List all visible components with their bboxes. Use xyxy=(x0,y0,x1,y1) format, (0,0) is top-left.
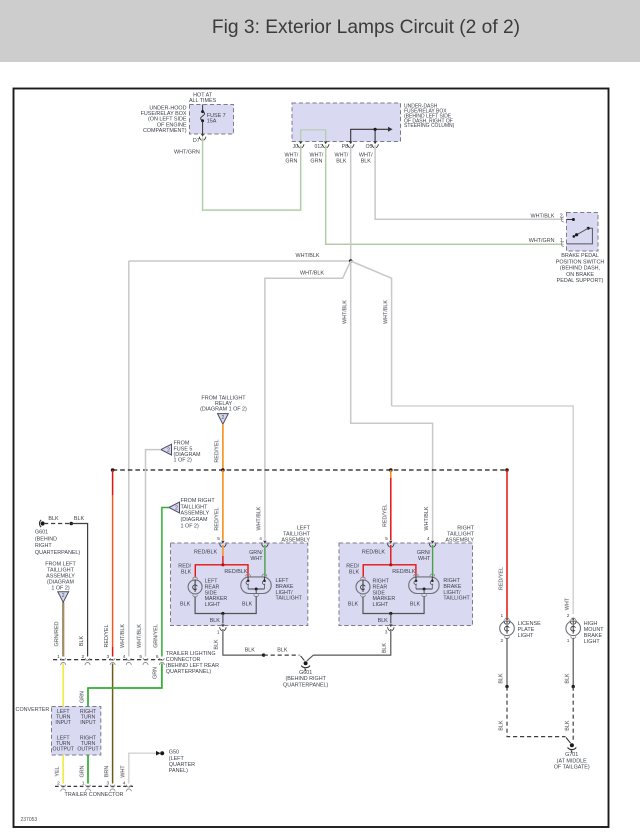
labels BLK xyxy=(348,602,421,624)
svg-text:1 OF 2): 1 OF 2) xyxy=(181,523,199,529)
triangle from fuse 5 xyxy=(161,444,172,455)
svg-text:RED/BLK: RED/BLK xyxy=(194,550,217,556)
svg-text:LIGHT: LIGHT xyxy=(373,602,389,608)
svg-text:RED/YEL: RED/YEL xyxy=(104,624,110,647)
svg-text:ON BRAKE: ON BRAKE xyxy=(566,272,594,278)
svg-text:OF TAILGATE): OF TAILGATE) xyxy=(554,765,590,771)
svg-text:BLK: BLK xyxy=(565,673,571,684)
svg-text:BLK: BLK xyxy=(336,158,347,164)
connector pin 4 xyxy=(259,536,268,547)
wire labels above connector xyxy=(120,624,159,648)
trailer lighting connector caption xyxy=(166,651,219,675)
wire GRN/WHT inside box xyxy=(264,545,266,578)
connector pins 1-6 xyxy=(57,654,164,665)
brake light caption xyxy=(276,578,303,602)
side marker caption xyxy=(373,579,396,609)
svg-text:5: 5 xyxy=(385,536,388,542)
G701 caption xyxy=(554,752,590,770)
wire WHT/GRN from D7 to under-dash pin J0 xyxy=(203,137,301,210)
under-hood box caption xyxy=(141,105,187,134)
svg-text:LIGHT: LIGHT xyxy=(205,602,221,608)
wire BLK left taillight to G601 xyxy=(223,629,264,655)
svg-text:WHT: WHT xyxy=(565,597,571,610)
svg-text:(LEFT: (LEFT xyxy=(169,756,185,762)
svg-text:BLK: BLK xyxy=(245,647,256,653)
from taillight relay caption xyxy=(200,395,247,412)
svg-text:WHT/BLK: WHT/BLK xyxy=(300,270,324,276)
svg-text:BRN: BRN xyxy=(104,766,110,777)
svg-text:RED/BLK: RED/BLK xyxy=(362,550,385,556)
from right taillight caption xyxy=(181,498,216,529)
svg-text:QUARTERPANEL): QUARTERPANEL) xyxy=(166,669,212,675)
high mount brake light bulb xyxy=(566,618,581,639)
svg-text:BLK: BLK xyxy=(210,618,221,624)
svg-text:BLK: BLK xyxy=(348,602,359,608)
svg-text:3: 3 xyxy=(107,654,110,660)
svg-text:012: 012 xyxy=(315,144,324,150)
svg-text:QUARTERPANEL): QUARTERPANEL) xyxy=(283,683,329,689)
svg-text:3: 3 xyxy=(107,781,110,787)
converter terminal labels xyxy=(53,709,100,752)
svg-text:BLK: BLK xyxy=(180,602,191,608)
wire GRN/RED to trailer pin 1 xyxy=(63,602,64,656)
svg-text:GRN/RED: GRN/RED xyxy=(54,621,60,646)
svg-text:WHT/GRN: WHT/GRN xyxy=(174,150,200,156)
svg-text:J0: J0 xyxy=(293,144,299,150)
svg-text:LICENSE: LICENSE xyxy=(518,621,541,627)
svg-text:INPUT: INPUT xyxy=(80,720,96,726)
svg-text:RED/YEL: RED/YEL xyxy=(214,507,220,530)
svg-text:HIGH: HIGH xyxy=(584,621,598,627)
svg-text:WHT/BLK: WHT/BLK xyxy=(424,506,430,530)
svg-text:(DIAGRAM: (DIAGRAM xyxy=(181,517,208,523)
wire WHT/BLK fuse5 to trailer pin 5 xyxy=(146,450,161,657)
connectors J0 012 P8 O5 xyxy=(293,141,379,150)
svg-text:2: 2 xyxy=(167,448,170,454)
svg-text:GRN: GRN xyxy=(153,667,159,679)
wire YEL converter to trailer connector pin 2 xyxy=(62,755,64,784)
junction xyxy=(572,685,575,688)
svg-text:GRN: GRN xyxy=(310,158,322,164)
labels BLK BLK xyxy=(48,516,84,522)
svg-text:LIGHT: LIGHT xyxy=(518,633,535,639)
wire WHT to G50 xyxy=(129,753,156,783)
diagonal dashes to G701 xyxy=(566,738,571,744)
license plate light bulb xyxy=(500,618,515,639)
svg-text:PEDAL SUPPORT): PEDAL SUPPORT) xyxy=(557,278,604,284)
svg-text:GRN: GRN xyxy=(80,765,86,777)
Right rear side marker light bulb xyxy=(356,577,370,597)
svg-text:RED/YEL: RED/YEL xyxy=(214,439,220,462)
converter box xyxy=(52,707,101,756)
wire WHT/BLK horizontal to splice xyxy=(129,260,351,262)
svg-text:(DIAGRAM 1 OF 2): (DIAGRAM 1 OF 2) xyxy=(200,407,247,413)
svg-text:WHT/BLK: WHT/BLK xyxy=(137,624,143,648)
ground G50 xyxy=(156,751,164,756)
svg-text:INPUT: INPUT xyxy=(55,720,71,726)
connector pin 3 bottom xyxy=(385,624,394,635)
svg-text:G601: G601 xyxy=(35,530,48,536)
junction dots on bus xyxy=(111,468,509,472)
wire RED/BLK inside box xyxy=(195,545,248,578)
label GRN/WHT xyxy=(249,550,263,562)
svg-text:1: 1 xyxy=(217,630,220,636)
connector pin 5 xyxy=(217,536,226,547)
wire RED/YEL bus to license plate light xyxy=(506,470,508,618)
svg-text:WHT/BLK: WHT/BLK xyxy=(296,253,320,259)
svg-text:TAILLIGHT: TAILLIGHT xyxy=(443,596,470,602)
svg-text:GRN/YEL: GRN/YEL xyxy=(153,624,159,648)
ground G601 xyxy=(301,655,314,671)
svg-text:1: 1 xyxy=(501,613,504,619)
title text xyxy=(0,17,640,39)
svg-text:BLK: BLK xyxy=(214,639,220,650)
connector pin 1 bottom xyxy=(217,624,226,635)
svg-text:BLK: BLK xyxy=(498,673,504,684)
svg-text:WHT: WHT xyxy=(120,765,126,778)
svg-text:2: 2 xyxy=(57,781,60,787)
connector D7 xyxy=(193,134,206,144)
Right brake light/taillight dual bulb xyxy=(409,574,439,597)
switch internals xyxy=(561,217,592,247)
svg-text:2: 2 xyxy=(501,638,504,644)
svg-text:TRAILER CONNECTOR: TRAILER CONNECTOR xyxy=(65,792,124,798)
svg-text:BLK: BLK xyxy=(242,602,253,608)
svg-text:WHT: WHT xyxy=(250,556,263,562)
wire YEL pin1 to converter xyxy=(62,664,64,707)
wire BLK license plate down xyxy=(506,638,508,687)
svg-text:CONVERTER: CONVERTER xyxy=(16,707,50,713)
svg-text:BLK: BLK xyxy=(74,516,85,522)
svg-text:BLK: BLK xyxy=(79,636,85,647)
wire RED/YEL bus to left taillight pin 5 xyxy=(222,470,224,540)
svg-text:2: 2 xyxy=(567,613,570,619)
svg-text:6: 6 xyxy=(156,654,159,660)
wire RED/YEL bus to right taillight pin 5 xyxy=(390,470,392,540)
svg-text:WHT/: WHT/ xyxy=(335,152,349,158)
wire GRN/WHT inside box xyxy=(432,545,434,578)
svg-text:BLK: BLK xyxy=(48,516,59,522)
trailer connector xyxy=(55,781,133,792)
svg-text:WHT/BLK: WHT/BLK xyxy=(120,624,126,648)
label HOT AT ALL TIMES xyxy=(189,92,217,104)
svg-text:BLK: BLK xyxy=(277,647,288,653)
Left taillight assembly box xyxy=(171,543,308,626)
svg-text:COMPARTMENT): COMPARTMENT) xyxy=(143,128,187,134)
wire BLK to trailer pin 2 xyxy=(71,524,87,657)
label GRN/WHT xyxy=(417,550,431,562)
svg-text:BLK: BLK xyxy=(499,720,505,731)
svg-text:ALL TIMES: ALL TIMES xyxy=(189,98,217,104)
svg-text:237053: 237053 xyxy=(21,817,38,823)
svg-text:(BEHIND: (BEHIND xyxy=(35,536,57,542)
under-hood fuse/relay box xyxy=(190,105,234,135)
svg-text:RED/YEL: RED/YEL xyxy=(382,504,388,527)
svg-text:YEL: YEL xyxy=(55,766,61,776)
title bar xyxy=(0,0,640,62)
assembly caption xyxy=(445,525,474,543)
svg-text:4: 4 xyxy=(427,536,430,542)
svg-text:G50: G50 xyxy=(169,750,179,756)
junction xyxy=(505,685,508,688)
wire RED/YEL bus to trailer pin 3 xyxy=(112,470,114,657)
svg-text:BLK: BLK xyxy=(361,158,372,164)
wire BLK dashed from G601 xyxy=(44,523,71,525)
svg-text:2: 2 xyxy=(222,415,225,421)
connector pin 2 high mount xyxy=(567,613,577,624)
svg-text:4: 4 xyxy=(123,781,126,787)
Left rear side marker light bulb xyxy=(188,577,202,597)
svg-text:RED/BLK: RED/BLK xyxy=(224,569,247,575)
junction xyxy=(70,522,74,526)
svg-text:BLK: BLK xyxy=(181,569,192,575)
G601 caption xyxy=(35,530,81,556)
internal jumper J0-012 xyxy=(301,130,326,142)
svg-text:WHT/BLK: WHT/BLK xyxy=(383,300,389,324)
svg-text:STEERING COLUMN): STEERING COLUMN) xyxy=(404,123,455,129)
triangle from taillight relay xyxy=(218,414,229,425)
brake light caption xyxy=(443,578,470,602)
svg-text:G601: G601 xyxy=(299,670,312,676)
triangle from right taillight assembly xyxy=(169,502,180,513)
connector pin 5 xyxy=(385,536,394,547)
license plate caption xyxy=(518,621,541,639)
wire GRN converter to trailer connector pin 1 xyxy=(87,755,89,784)
svg-text:(BEHIND RIGHT: (BEHIND RIGHT xyxy=(285,676,326,682)
high mount caption xyxy=(584,621,604,645)
svg-text:WHT/: WHT/ xyxy=(310,152,324,158)
svg-text:5: 5 xyxy=(217,536,220,542)
connector pin 2 license plate xyxy=(501,638,504,644)
svg-text:BLK: BLK xyxy=(378,618,389,624)
fuse FUSE 7 15A xyxy=(201,105,226,135)
svg-text:MOUNT: MOUNT xyxy=(584,627,604,633)
svg-text:P8: P8 xyxy=(342,144,348,150)
side marker caption xyxy=(205,579,228,609)
svg-text:1: 1 xyxy=(57,654,60,660)
svg-text:WHT/GRN: WHT/GRN xyxy=(529,238,555,244)
svg-text:1: 1 xyxy=(82,781,85,787)
svg-text:2: 2 xyxy=(82,654,85,660)
svg-text:GRN: GRN xyxy=(80,691,86,703)
connector pin 4 xyxy=(427,536,436,547)
svg-text:(BEHIND DASH,: (BEHIND DASH, xyxy=(560,266,601,272)
connector pin 1 license plate xyxy=(501,613,511,624)
wire WHT/BLK P8 down to splice xyxy=(350,145,352,261)
svg-text:WHT/BLK: WHT/BLK xyxy=(256,506,262,530)
svg-text:TAILLIGHT: TAILLIGHT xyxy=(276,596,303,602)
trailer lighting connector bus xyxy=(53,659,163,661)
svg-text:PANEL): PANEL) xyxy=(169,768,188,774)
svg-text:LIGHT: LIGHT xyxy=(584,639,601,645)
ground G701 xyxy=(568,743,577,752)
labels BLK BLK xyxy=(245,647,288,653)
labels on trailer connector wires xyxy=(55,765,127,778)
svg-text:RED/BLK: RED/BLK xyxy=(392,569,415,575)
svg-text:BLK: BLK xyxy=(410,602,421,608)
svg-text:(AT MIDDLE: (AT MIDDLE xyxy=(557,758,587,764)
wire GRN pin6 to converter xyxy=(88,664,162,707)
wire BLK dashed to G601 xyxy=(264,654,300,656)
wire labels under box xyxy=(285,152,374,164)
svg-text:ASSEMBLY: ASSEMBLY xyxy=(445,537,474,543)
brake switch caption xyxy=(556,253,605,284)
svg-text:BLK: BLK xyxy=(349,569,360,575)
svg-text:BLK: BLK xyxy=(565,720,571,731)
svg-text:RED/YEL: RED/YEL xyxy=(499,567,505,590)
wire BLK right taillight to G601 xyxy=(313,629,390,655)
wire BLK dashed to G701 xyxy=(507,687,566,737)
Left brake light/taillight dual bulb xyxy=(241,574,271,597)
under-dash fuse/relay box xyxy=(292,103,401,142)
splice junction xyxy=(349,259,353,263)
brake pedal position switch xyxy=(567,213,599,252)
svg-text:D7: D7 xyxy=(193,138,200,144)
labels at brake switch wires xyxy=(529,213,563,244)
ground G601 (left symbol) xyxy=(39,520,44,527)
wire BLK high mount down xyxy=(572,638,574,687)
wire WHT/BLK branch to left taillight pin 4 xyxy=(265,261,351,540)
wire RED/BLK inside box xyxy=(363,545,416,578)
svg-text:PLATE: PLATE xyxy=(518,627,535,633)
svg-text:WHT/BLK: WHT/BLK xyxy=(531,213,555,219)
svg-text:QUARTER: QUARTER xyxy=(169,762,195,768)
svg-text:2: 2 xyxy=(62,593,65,599)
svg-text:WHT/: WHT/ xyxy=(359,152,373,158)
wire WHT/BLK O5 to brake switch pin 2 xyxy=(375,145,563,219)
wire GRN/YEL to trailer pin 6 xyxy=(162,508,169,657)
svg-text:1 OF 2): 1 OF 2) xyxy=(51,585,69,591)
svg-text:BRAKE PEDAL: BRAKE PEDAL xyxy=(561,253,598,259)
svg-text:5: 5 xyxy=(139,654,142,660)
G601 caption xyxy=(283,670,329,689)
labels RED/BLK xyxy=(178,550,248,576)
wire WHT/GRN 012 to brake switch pin 1 xyxy=(326,145,564,244)
svg-text:4: 4 xyxy=(123,654,126,660)
wire WHT/BLK down to trailer pin 4 xyxy=(128,261,130,657)
svg-text:OUTPUT: OUTPUT xyxy=(53,746,75,752)
svg-text:FROM RIGHT: FROM RIGHT xyxy=(181,498,216,504)
junction xyxy=(262,653,265,656)
svg-text:QUARTERPANEL): QUARTERPANEL) xyxy=(35,550,81,556)
svg-text:1: 1 xyxy=(567,638,570,644)
svg-text:2: 2 xyxy=(175,506,178,512)
svg-text:BRAKE: BRAKE xyxy=(584,633,603,639)
svg-text:POSITION SWITCH: POSITION SWITCH xyxy=(556,259,605,265)
wires BLK inside box xyxy=(195,596,256,623)
wires BLK inside box xyxy=(363,596,424,623)
svg-text:G701: G701 xyxy=(565,752,578,758)
svg-text:OUTPUT: OUTPUT xyxy=(77,746,99,752)
svg-text:4: 4 xyxy=(259,536,262,542)
wire WHT/BLK branch to high mount light xyxy=(351,261,574,614)
svg-text:ASSEMBLY: ASSEMBLY xyxy=(181,511,210,517)
svg-text:1 OF 2): 1 OF 2) xyxy=(174,458,192,464)
wire RED/YEL relay to splice bus xyxy=(222,424,224,470)
svg-text:WHT: WHT xyxy=(418,556,431,562)
wire BLK dashed to G701 xyxy=(572,687,574,743)
Right taillight assembly box xyxy=(339,543,473,626)
wire BRN pin3 to trailer connector xyxy=(112,664,114,784)
svg-text:GRN: GRN xyxy=(285,158,297,164)
labels BLK xyxy=(180,602,253,624)
from left taillight caption xyxy=(45,562,76,592)
svg-text:TAILLIGHT: TAILLIGHT xyxy=(181,504,209,510)
splice bus (dashed) xyxy=(113,469,507,471)
labels RED/BLK xyxy=(346,550,416,576)
wire WHT/BLK branch to right taillight pin 4 xyxy=(351,261,433,540)
assembly caption xyxy=(281,525,310,543)
internal wire P8-O5 with arrow xyxy=(351,127,393,142)
svg-text:ASSEMBLY: ASSEMBLY xyxy=(281,537,310,543)
under-dash box caption xyxy=(404,104,455,130)
svg-text:RIGHT: RIGHT xyxy=(35,543,52,549)
from fuse 5 caption xyxy=(174,441,201,464)
svg-text:BLK: BLK xyxy=(382,643,388,654)
svg-text:WHT/BLK: WHT/BLK xyxy=(342,300,348,324)
svg-text:WHT/: WHT/ xyxy=(285,152,299,158)
G50 caption xyxy=(169,750,195,774)
triangle from left taillight assembly xyxy=(58,592,69,603)
svg-text:3: 3 xyxy=(385,630,388,636)
svg-text:O5: O5 xyxy=(366,144,373,150)
svg-text:15A: 15A xyxy=(207,118,217,124)
